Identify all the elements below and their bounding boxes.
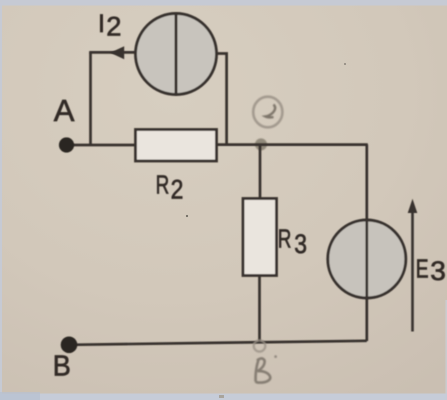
resistor R2: [136, 130, 217, 162]
pencil annotation: circled mark above node: [253, 97, 282, 128]
pencil annotation: small ring at bottom junction: [254, 340, 266, 351]
svg-text:2: 2: [171, 175, 184, 205]
svg-text:I: I: [98, 10, 105, 38]
resistor R3: [243, 199, 277, 276]
speck near R2: [186, 215, 188, 217]
photo border: bottom strip: [0, 394, 447, 400]
svg-text:3: 3: [430, 255, 446, 285]
svg-text:B: B: [53, 350, 71, 382]
wire: node to R3 top: [259, 145, 262, 199]
wire: right vertical through E3: [365, 145, 368, 341]
wire: top horizontal from corner to current source I2: [89, 51, 136, 54]
label R2: [156, 171, 184, 205]
photo border: right thin strip: [445, 300, 447, 394]
svg-text:3: 3: [294, 229, 307, 259]
wire: R2 right to top-right corner: [216, 143, 368, 146]
svg-text:A: A: [54, 93, 75, 128]
svg-text:R: R: [278, 225, 292, 253]
E3 direction arrow: [408, 199, 418, 332]
label E3: [416, 254, 446, 286]
wire: left vertical from node A up to corner: [89, 52, 92, 145]
wire: bottom horizontal from B to right corner: [70, 341, 367, 345]
voltage source E3: [328, 220, 406, 298]
label I2: [98, 10, 121, 42]
photo border: bottom-left darker patch: [0, 392, 40, 400]
tiny mark bottom edge: [219, 395, 224, 398]
terminal B: [61, 337, 78, 354]
label R3: [278, 225, 307, 260]
current direction arrow for I2: [110, 46, 124, 59]
current source I2: [136, 14, 217, 95]
terminal A: [59, 137, 74, 152]
svg-text:E: E: [416, 254, 429, 284]
pencil speck: [274, 355, 277, 358]
speck near top: [344, 63, 346, 65]
wire: A terminal to R2 left: [68, 144, 136, 147]
wire: current source right side down to middle wire: [216, 54, 227, 145]
node junction dot (faint pencil, under wires): [255, 138, 267, 150]
svg-text:R: R: [156, 171, 170, 199]
svg-text:2: 2: [106, 12, 121, 42]
pencil annotation: handwritten B near bottom node: [256, 359, 271, 383]
wire: R3 bottom to bottom wire: [258, 275, 261, 343]
